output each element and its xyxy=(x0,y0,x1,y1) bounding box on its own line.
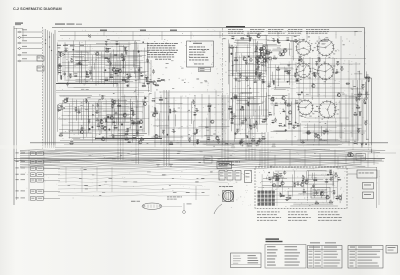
wire xyxy=(236,102,260,104)
wire xyxy=(280,68,294,70)
value label xyxy=(338,92,340,95)
value label xyxy=(196,107,198,110)
wire xyxy=(283,67,285,82)
jack label xyxy=(22,57,27,60)
wire xyxy=(57,64,88,66)
wire xyxy=(71,56,84,58)
wire xyxy=(135,96,137,141)
long vertical wires through switch area xyxy=(291,36,293,146)
main board right frame wire xyxy=(364,28,366,79)
wire xyxy=(21,60,42,62)
rotary switch wafer S3-2 xyxy=(318,100,337,119)
transistor Q50 xyxy=(257,141,260,144)
switch position labels S1-2 xyxy=(325,36,328,39)
value label xyxy=(274,55,276,58)
wire xyxy=(118,133,147,135)
wire xyxy=(60,95,149,97)
junction blob (transistor can) Q71 xyxy=(301,91,303,93)
diode D21 xyxy=(207,139,211,141)
wire xyxy=(240,71,259,73)
wire xyxy=(277,171,279,187)
diode D12 xyxy=(57,109,61,111)
wire xyxy=(73,138,136,140)
capacitor C46 xyxy=(258,74,262,76)
value label xyxy=(315,190,317,193)
resistor R48 xyxy=(234,60,238,61)
wire xyxy=(307,170,327,172)
wire xyxy=(234,56,270,58)
value label xyxy=(125,49,128,52)
diode D9 xyxy=(122,78,126,80)
notes block last line (centered) xyxy=(155,58,158,61)
diode D43 xyxy=(353,143,357,145)
wire xyxy=(89,44,91,76)
diode D30 xyxy=(230,118,234,120)
wire xyxy=(232,88,267,90)
value label xyxy=(140,118,143,121)
value label xyxy=(105,77,108,80)
value label xyxy=(112,66,115,69)
wire xyxy=(21,48,42,50)
value label xyxy=(282,94,284,97)
wire xyxy=(231,106,233,132)
wire xyxy=(227,40,229,85)
capacitor C38 xyxy=(172,130,176,132)
wire xyxy=(114,100,127,102)
value label xyxy=(153,80,155,83)
wire xyxy=(337,175,339,201)
value label xyxy=(150,78,152,81)
value label xyxy=(141,136,143,139)
wire xyxy=(117,83,126,85)
value label xyxy=(60,74,62,77)
value label xyxy=(152,97,155,100)
value label xyxy=(285,68,288,71)
value label xyxy=(252,137,255,140)
value label xyxy=(359,91,361,94)
value label xyxy=(262,44,264,47)
wire xyxy=(58,82,145,84)
wire xyxy=(59,128,143,130)
value label xyxy=(284,99,287,102)
value label xyxy=(287,102,289,105)
diode D34 xyxy=(297,94,301,96)
junction blob (transistor can) Q14 xyxy=(92,114,94,116)
wire xyxy=(233,78,256,80)
value label xyxy=(123,55,126,58)
value label xyxy=(256,58,258,61)
value label xyxy=(289,120,291,123)
wire xyxy=(100,78,148,80)
wire xyxy=(175,114,177,126)
resistor R65 xyxy=(277,38,278,42)
transistor Q91 xyxy=(326,196,329,199)
transistor Q41 xyxy=(260,47,263,50)
bracket wire at REC/PB xyxy=(14,27,23,29)
value label xyxy=(255,48,258,51)
wire xyxy=(272,87,296,89)
wire xyxy=(364,82,366,96)
wire xyxy=(291,102,293,126)
wire xyxy=(273,130,286,132)
resistor R43 xyxy=(197,140,198,144)
value label xyxy=(348,151,351,154)
value label xyxy=(272,119,274,122)
resistor R83 xyxy=(359,112,360,116)
wire xyxy=(307,123,309,141)
wire xyxy=(282,178,284,196)
value label xyxy=(297,122,299,125)
junction blob (transistor can) Q25 xyxy=(107,116,109,118)
resistor R41 xyxy=(159,99,163,100)
components left ladder (line amp) xyxy=(148,60,150,92)
value label xyxy=(236,128,239,131)
wire xyxy=(159,113,161,138)
wire xyxy=(44,190,60,192)
wire xyxy=(103,71,144,73)
value label xyxy=(155,110,158,113)
electrolytic capacitor C36 xyxy=(152,70,155,74)
wire xyxy=(265,35,267,132)
capacitor C3 xyxy=(89,71,91,75)
value label xyxy=(260,54,263,57)
electrolytic capacitor C55 xyxy=(239,74,242,78)
junction mark xyxy=(88,35,91,38)
wire xyxy=(308,174,331,176)
wire xyxy=(101,51,103,83)
wire xyxy=(292,42,294,61)
capacitor C15 xyxy=(123,57,125,61)
wire xyxy=(269,61,271,87)
resistor R2 xyxy=(61,76,62,80)
wire xyxy=(376,167,378,208)
junction blob (transistor can) Q10 xyxy=(118,70,120,72)
capacitor C72 xyxy=(294,40,298,42)
wire xyxy=(234,137,266,139)
resistor R27 xyxy=(136,123,140,124)
resistor R37 xyxy=(161,79,165,80)
value label xyxy=(97,123,100,126)
value label xyxy=(147,80,149,83)
value label xyxy=(254,79,256,82)
electrolytic capacitor C35 xyxy=(188,138,191,142)
capacitor C41 xyxy=(195,109,199,111)
diode D50 xyxy=(302,191,306,193)
value label xyxy=(208,103,210,106)
wire xyxy=(57,51,149,53)
wire xyxy=(139,54,141,79)
wire xyxy=(341,194,343,201)
resistor R5 xyxy=(85,76,89,77)
wire xyxy=(59,95,92,97)
wire xyxy=(21,31,42,33)
junction blob (transistor can) Q2 xyxy=(72,49,74,51)
wire xyxy=(272,72,274,83)
value label xyxy=(302,174,304,177)
electrolytic capacitor C86 xyxy=(314,134,317,138)
value label xyxy=(71,57,73,60)
value label xyxy=(121,53,123,56)
value label xyxy=(257,139,260,142)
value label xyxy=(287,70,289,73)
wire xyxy=(68,130,144,132)
diode D1 xyxy=(58,65,62,67)
legend box xyxy=(231,253,262,268)
electrolytic capacitor C99 xyxy=(283,171,286,175)
resistor R91 xyxy=(313,180,317,181)
junction blob (transistor can) Q5 xyxy=(127,85,129,87)
diode D22 xyxy=(257,57,261,59)
wire xyxy=(60,108,134,110)
wire xyxy=(75,57,137,59)
wire xyxy=(258,186,337,188)
value label xyxy=(69,73,72,76)
value label xyxy=(241,119,244,122)
wire xyxy=(67,76,143,78)
wire xyxy=(95,102,97,139)
junction blob (transistor can) Q68 xyxy=(296,79,298,81)
inner left wire (vertical) xyxy=(15,28,17,200)
wire xyxy=(124,61,126,75)
wire xyxy=(119,45,125,47)
value label xyxy=(274,172,277,175)
resistor R19 xyxy=(59,135,63,136)
value label xyxy=(257,33,259,36)
transistor Q87 xyxy=(305,181,308,184)
value label xyxy=(314,73,317,76)
resistor R90 xyxy=(294,183,295,187)
wire xyxy=(44,174,60,176)
wire xyxy=(333,171,335,200)
wire xyxy=(248,62,253,64)
value label xyxy=(365,91,368,94)
wire xyxy=(93,63,95,70)
capacitor C14 xyxy=(138,68,140,72)
resistor R51 xyxy=(260,52,261,56)
resistor R16 xyxy=(124,81,128,82)
value label xyxy=(239,140,241,143)
wire xyxy=(62,70,148,72)
value label xyxy=(125,136,128,139)
wire xyxy=(266,49,268,54)
wire xyxy=(287,190,324,192)
resistor R53 xyxy=(265,58,266,62)
resistor R69 xyxy=(284,71,288,72)
left frame wire (vertical) xyxy=(13,26,15,205)
DIN label xyxy=(131,200,136,203)
bus wire upper xyxy=(60,35,300,37)
wire xyxy=(289,71,291,85)
parts row above block bottom xyxy=(60,140,340,142)
capacitor C42 xyxy=(193,133,197,135)
transistor Q26 xyxy=(123,114,126,117)
wire xyxy=(106,114,108,138)
capacitor C39 xyxy=(162,130,164,134)
wire xyxy=(272,95,287,97)
wire xyxy=(241,92,253,94)
resistor R71 xyxy=(273,80,274,84)
wire xyxy=(273,172,275,179)
value label xyxy=(79,61,81,64)
capacitor C10 xyxy=(128,75,132,77)
value label xyxy=(122,57,124,60)
wire xyxy=(248,37,250,127)
relay contact block K2 xyxy=(227,171,233,181)
resistor R57 xyxy=(233,97,237,98)
capacitor C45 xyxy=(261,79,263,83)
transistor Q11 xyxy=(112,68,115,71)
diode D41 xyxy=(254,50,258,52)
resistor R61 xyxy=(261,138,265,139)
value label xyxy=(70,140,73,143)
wire xyxy=(72,54,128,56)
value label xyxy=(173,108,175,111)
wire xyxy=(142,99,144,133)
wire xyxy=(61,133,147,135)
value label xyxy=(138,66,141,69)
jack label xyxy=(22,39,27,42)
transistor Q47 xyxy=(260,50,263,53)
value label xyxy=(140,72,142,75)
switch position labels S3-2 xyxy=(337,113,339,116)
wire xyxy=(287,191,289,200)
resistor R23 xyxy=(124,133,128,134)
wire xyxy=(357,87,359,96)
wire xyxy=(341,123,343,139)
diode D39 xyxy=(286,39,290,41)
diode D36 xyxy=(268,114,272,116)
resistor R94 xyxy=(315,203,319,204)
wire xyxy=(64,42,66,81)
wire xyxy=(111,40,141,42)
transistor Q27 xyxy=(110,116,113,119)
wire xyxy=(230,91,260,93)
caution label box inside power block xyxy=(311,188,330,199)
junction blob (transistor can) Q78 xyxy=(365,143,367,145)
value label xyxy=(330,199,332,202)
wire xyxy=(117,106,144,108)
wire xyxy=(109,57,111,81)
value label xyxy=(362,83,365,86)
wire xyxy=(235,80,261,82)
wire xyxy=(233,142,265,144)
value label xyxy=(134,120,136,123)
wire xyxy=(274,89,286,91)
wire xyxy=(118,99,120,125)
wire xyxy=(68,122,129,124)
transistor Q73 xyxy=(337,93,340,96)
electrolytic capacitor C16 xyxy=(85,99,88,103)
right ladder wires xyxy=(352,80,354,150)
wire xyxy=(76,59,144,61)
wire xyxy=(133,50,135,67)
wire xyxy=(228,44,230,63)
resistor R73 xyxy=(319,58,320,62)
wire xyxy=(235,39,269,41)
value label xyxy=(232,144,235,147)
wire xyxy=(354,94,369,96)
connector CN6 (left column) xyxy=(31,173,36,177)
rotary switch wafer S3-1 xyxy=(297,99,314,116)
value label xyxy=(131,107,133,110)
wire xyxy=(268,49,270,117)
capacitor C20 xyxy=(60,104,62,108)
capacitor C44 xyxy=(245,61,247,65)
wire xyxy=(270,103,292,105)
electrolytic capacitor C89 xyxy=(363,100,366,104)
wire xyxy=(96,57,124,59)
connector CN9 (left column) xyxy=(31,197,36,201)
wire xyxy=(302,121,338,123)
resistor R29 xyxy=(133,112,134,116)
wire xyxy=(229,142,257,144)
wire xyxy=(282,126,287,128)
wire xyxy=(103,110,129,112)
junction blob (transistor can) Q16 xyxy=(88,128,90,130)
wire xyxy=(280,113,282,114)
value label xyxy=(293,124,296,127)
wire xyxy=(78,106,80,135)
electrolytic capacitor C85 xyxy=(323,131,326,135)
wire xyxy=(85,41,87,85)
resistor R67 xyxy=(266,53,270,54)
resistor R7 xyxy=(105,51,109,52)
resistor R63 xyxy=(287,105,291,106)
wire xyxy=(307,143,342,145)
junction blob (transistor can) Q22 xyxy=(108,129,110,131)
value label xyxy=(260,51,262,54)
wire xyxy=(118,103,120,132)
capacitor C43 xyxy=(255,68,259,70)
transistor Q94 xyxy=(320,192,323,195)
wire xyxy=(62,124,138,126)
transistor Q61 xyxy=(271,98,274,101)
value label xyxy=(116,67,119,70)
resistor R93 xyxy=(280,193,281,197)
capacitor C26 xyxy=(95,119,99,121)
transistor Q18 xyxy=(143,102,146,105)
output level labels xyxy=(167,196,169,199)
resistor R80 xyxy=(346,83,350,84)
value label xyxy=(85,98,87,101)
junction blob (transistor can) Q53 xyxy=(249,125,251,127)
diode D31 xyxy=(295,102,299,104)
junction blob (transistor can) Q88 xyxy=(327,174,329,176)
wire xyxy=(57,57,59,72)
bus jog wires (right side) xyxy=(337,157,339,170)
wire xyxy=(69,137,136,139)
wire xyxy=(104,117,132,119)
wire xyxy=(263,177,287,179)
value label xyxy=(133,134,135,137)
electrolytic capacitor C8 xyxy=(121,54,124,58)
wire xyxy=(116,44,118,87)
wire xyxy=(112,107,114,125)
value label xyxy=(256,54,258,57)
fine print texture (unresolved small labels) xyxy=(271,88,272,91)
junction blob (transistor can) Q76 xyxy=(365,102,367,104)
electrolytic capacitor C40 xyxy=(192,100,195,104)
relay contact block K3 xyxy=(235,171,241,181)
wire xyxy=(65,106,129,108)
wire bundle to main board xyxy=(45,29,47,148)
value label xyxy=(286,37,289,40)
junction blob (transistor can) Q55 xyxy=(284,124,286,126)
wire xyxy=(262,184,282,186)
wire xyxy=(285,102,287,127)
diode D45 xyxy=(268,179,272,181)
value label xyxy=(78,109,81,112)
